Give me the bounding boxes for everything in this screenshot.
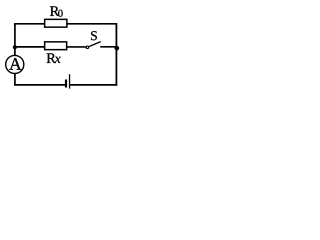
wire: right side vertical <box>115 23 117 86</box>
label S <box>91 31 97 40</box>
resistor R0 <box>45 19 67 27</box>
ammeter A1 circle <box>6 55 24 73</box>
wire: top side left segment <box>14 23 46 25</box>
wire: middle branch Rx to switch <box>66 46 86 48</box>
wire: middle branch from left node to Rx <box>15 46 46 48</box>
switch S pivot circle <box>86 46 89 49</box>
switch S lever <box>89 42 101 47</box>
ammeter A1 letter <box>9 58 21 70</box>
label Rx <box>47 53 56 62</box>
wire: top side right segment <box>66 23 116 25</box>
node: left junction dot <box>13 45 17 49</box>
wire: left side vertical upper <box>14 23 16 56</box>
node: right junction dot <box>114 46 119 51</box>
wire: bottom side left segment <box>14 84 65 86</box>
battery BT1 long plate <box>69 74 71 88</box>
wire: left side vertical lower <box>14 74 16 86</box>
battery BT1 short plate <box>65 80 67 88</box>
wire: bottom side right segment <box>70 84 117 86</box>
resistor Rx <box>45 42 67 50</box>
wire: middle branch switch to right node <box>100 46 116 48</box>
label R0 <box>50 6 59 15</box>
